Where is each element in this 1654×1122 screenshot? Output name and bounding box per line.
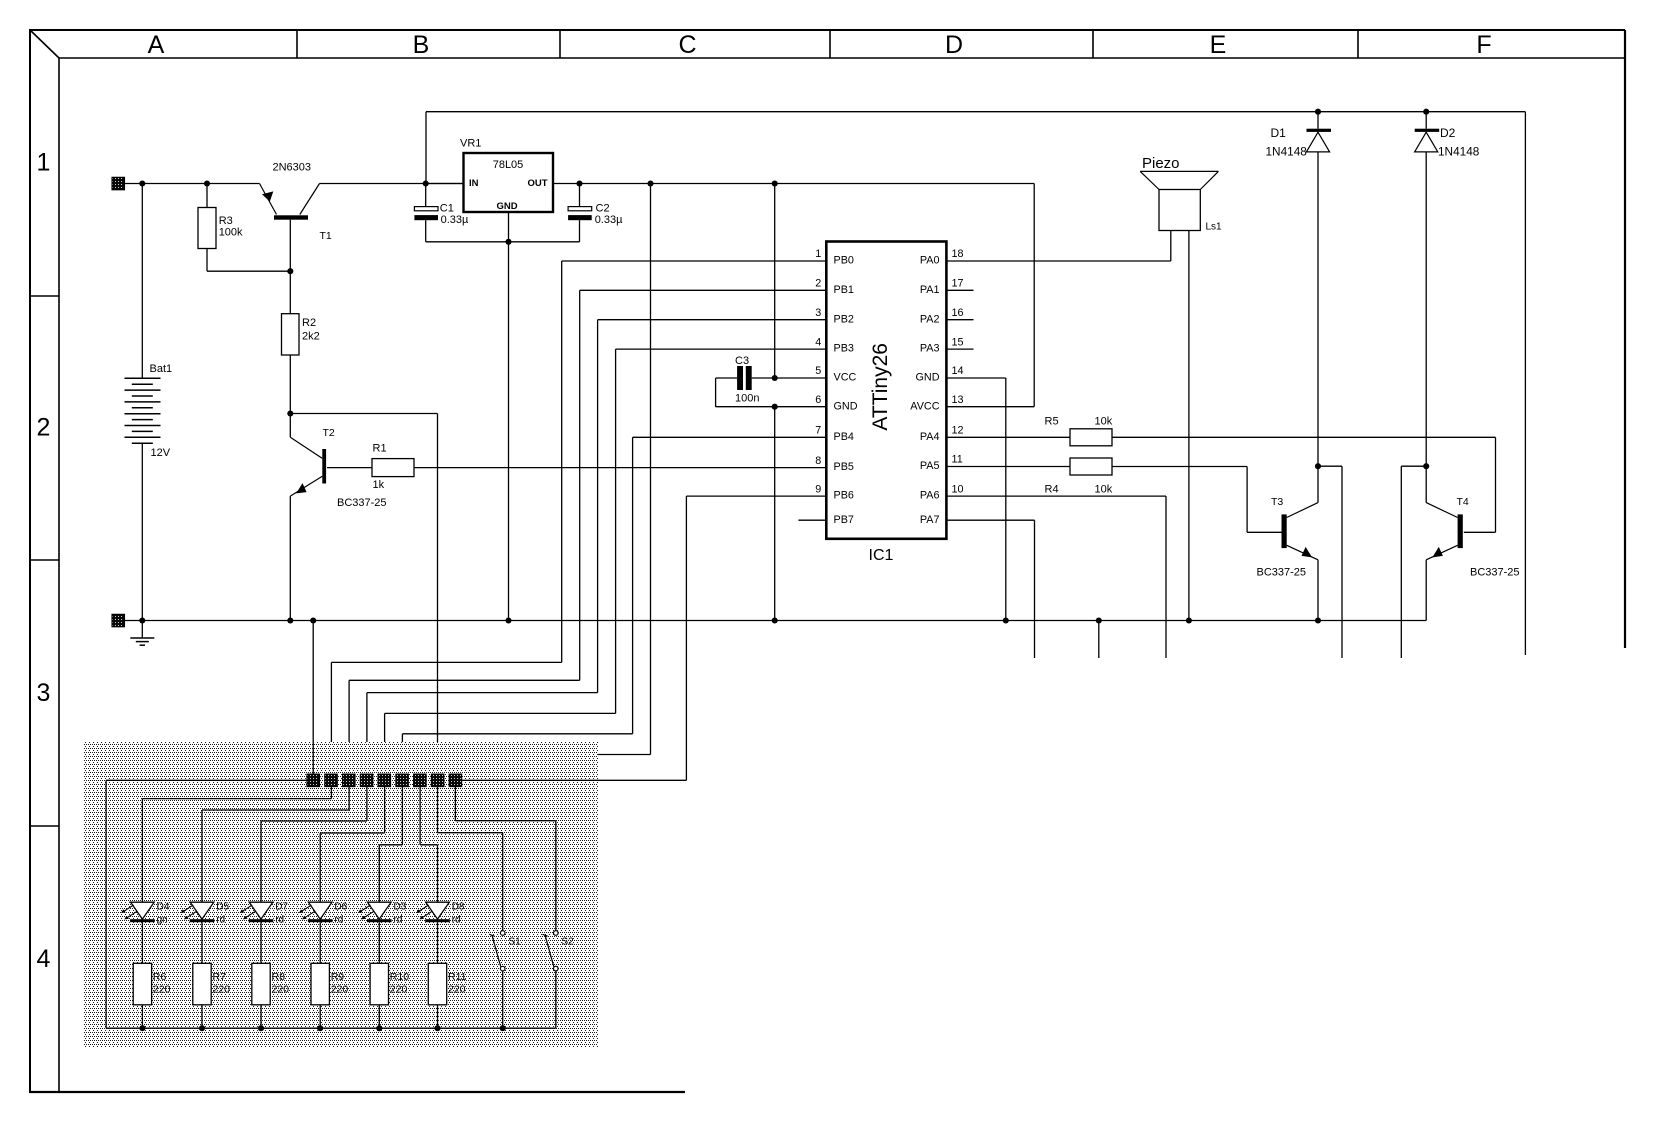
resistor R11 220	[428, 963, 466, 1028]
resistor R1 1k	[327, 443, 414, 492]
wire LED cathode rail	[106, 1025, 556, 1031]
svg-text:14: 14	[952, 365, 964, 377]
connector pad 5	[378, 774, 391, 787]
svg-text:12: 12	[952, 425, 964, 437]
IC1 pin labels	[815, 248, 963, 526]
wire ground stub	[1098, 621, 1100, 659]
wire T1 base down	[287, 220, 293, 314]
svg-text:0.33µ: 0.33µ	[595, 214, 623, 226]
svg-text:BC337-25: BC337-25	[337, 497, 387, 509]
wire pad3 to D5	[202, 787, 349, 903]
node D1 rail junction	[1315, 109, 1321, 115]
frame column labels	[148, 31, 1492, 59]
svg-text:Piezo: Piezo	[1142, 155, 1180, 172]
svg-text:2k2: 2k2	[302, 331, 320, 343]
svg-text:rd: rd	[394, 915, 403, 926]
svg-text:C: C	[678, 31, 696, 59]
resistor R10 220	[370, 963, 409, 1028]
svg-text:D2: D2	[1440, 126, 1456, 140]
wire R3 to T1 base	[207, 270, 290, 272]
svg-text:1k: 1k	[373, 479, 385, 491]
transistor T3 BC337-25	[1257, 466, 1319, 620]
connector pad 7	[414, 774, 427, 787]
svg-text:PA5: PA5	[920, 460, 940, 472]
resistor R5 10k	[946, 415, 1495, 532]
svg-text:12V: 12V	[151, 447, 171, 459]
wire R1 to PB5	[414, 467, 826, 469]
svg-text:GND: GND	[916, 372, 940, 384]
wire pad1 ground feed	[312, 621, 314, 775]
svg-text:13: 13	[952, 394, 964, 406]
LED D7 rd	[240, 902, 289, 964]
ground symbol	[130, 621, 154, 646]
svg-text:PB3: PB3	[834, 343, 854, 355]
diode D2 1N4148	[1415, 112, 1480, 467]
wire PB6 net	[686, 496, 826, 780]
svg-text:17: 17	[952, 278, 964, 290]
speaker Ls1 Piezo	[1140, 155, 1222, 233]
wire 5V rail	[553, 180, 1034, 186]
wire pad8 to S1	[438, 787, 503, 931]
svg-text:3: 3	[37, 679, 51, 707]
wire PB3 net	[385, 349, 827, 774]
transistor T2 BC337-25	[290, 414, 386, 621]
capacitor C3 100n	[716, 355, 775, 407]
svg-text:R1: R1	[373, 443, 387, 455]
resistor R3 100k	[198, 184, 243, 272]
svg-text:100k: 100k	[219, 227, 243, 239]
svg-text:R11: R11	[448, 971, 467, 983]
resistor R7 220	[193, 963, 230, 1028]
svg-text:BC337-25: BC337-25	[1257, 567, 1307, 579]
svg-text:IC1: IC1	[869, 547, 894, 564]
svg-text:10: 10	[952, 483, 964, 495]
svg-text:220: 220	[213, 984, 231, 996]
svg-text:2: 2	[815, 278, 821, 290]
node T2 collector junction	[287, 410, 293, 416]
wire PB4 net	[402, 437, 826, 774]
wire PA3 stub	[946, 348, 973, 350]
op-amp U IC1 ATTiny26 body	[826, 242, 946, 564]
wire PB7 stub	[798, 519, 826, 521]
wire pad9 to S2	[455, 787, 555, 931]
svg-text:VR1: VR1	[460, 138, 481, 150]
wire PA7 net	[946, 520, 1034, 658]
wire PB1 net	[349, 290, 826, 774]
wire ground rail	[125, 617, 1427, 623]
wire PA0 to speaker	[946, 231, 1170, 262]
wire VR1 IN	[426, 183, 464, 185]
svg-text:R3: R3	[219, 215, 233, 227]
wire AVCC branch	[946, 184, 1034, 407]
capacitor C1 0.33u	[414, 184, 469, 242]
resistor R4 10k	[946, 458, 1281, 532]
transistor T1 2N6303	[260, 162, 332, 243]
svg-text:1N4148: 1N4148	[1438, 144, 1480, 158]
resistor R9 220	[311, 963, 348, 1028]
svg-text:C1: C1	[440, 203, 454, 215]
svg-text:T3: T3	[1271, 496, 1283, 508]
wire T4 collector stub	[1401, 466, 1426, 658]
svg-text:GND: GND	[496, 201, 517, 212]
capacitor C2 0.33u	[568, 184, 623, 242]
connector pad 3	[343, 774, 356, 787]
svg-text:R6: R6	[153, 971, 167, 983]
svg-text:2N6303: 2N6303	[273, 162, 312, 174]
node T4 collector	[1423, 463, 1429, 469]
wire C1 C2 to VR1 GND	[426, 239, 580, 245]
svg-text:PB1: PB1	[834, 284, 854, 296]
svg-text:18: 18	[952, 248, 964, 260]
svg-text:D5: D5	[216, 902, 229, 913]
svg-text:7: 7	[815, 425, 821, 437]
connector pad 2	[325, 774, 338, 787]
connector pad 6	[396, 774, 409, 787]
wire PA1 stub	[946, 289, 973, 291]
svg-text:PA6: PA6	[920, 490, 940, 502]
svg-text:0.33µ: 0.33µ	[441, 214, 469, 226]
wire pad6 to D3	[379, 787, 402, 903]
svg-text:D3: D3	[394, 902, 407, 913]
wire pad row left	[106, 780, 307, 1028]
voltage regulator VR1 78L05	[460, 138, 553, 213]
svg-text:Ls1: Ls1	[1206, 222, 1223, 233]
svg-text:C2: C2	[596, 203, 610, 215]
wire IC GND pin6	[772, 404, 827, 621]
node D2 rail junction	[1423, 109, 1429, 115]
LED D3 rd	[358, 902, 407, 964]
svg-text:rd: rd	[334, 915, 343, 926]
svg-text:IN: IN	[469, 178, 479, 189]
svg-text:PB0: PB0	[834, 255, 854, 267]
svg-text:78L05: 78L05	[493, 159, 524, 171]
LED D5 rd	[181, 902, 230, 964]
svg-text:PB5: PB5	[834, 461, 854, 473]
svg-text:PA7: PA7	[920, 514, 940, 526]
switch S2	[543, 931, 575, 1028]
svg-text:PB7: PB7	[834, 514, 854, 526]
wire 12V rail T1 to VR1	[320, 180, 464, 186]
LED D4 gn	[121, 902, 170, 964]
svg-text:T1: T1	[320, 230, 332, 242]
svg-text:R10: R10	[390, 971, 409, 983]
svg-text:220: 220	[272, 984, 290, 996]
svg-text:1: 1	[815, 248, 821, 260]
svg-text:10k: 10k	[1095, 484, 1113, 496]
connector pad 9	[449, 774, 462, 787]
wire VR1 GND down	[508, 212, 510, 621]
svg-text:ATTiny26: ATTiny26	[869, 343, 892, 431]
wire PA2 stub	[946, 319, 973, 321]
ground pad terminal	[112, 614, 125, 627]
connector pad 4	[360, 774, 373, 787]
svg-text:100n: 100n	[735, 393, 759, 405]
resistor R8 220	[252, 963, 289, 1028]
svg-text:C3: C3	[735, 355, 749, 367]
svg-text:D: D	[945, 31, 963, 59]
svg-text:PA3: PA3	[920, 343, 940, 355]
resistor R6 220	[133, 963, 170, 1028]
svg-text:15: 15	[952, 336, 964, 348]
svg-text:S1: S1	[509, 937, 522, 948]
wire PB0 net	[331, 261, 826, 774]
switch S1	[489, 931, 521, 1028]
svg-text:220: 220	[390, 984, 408, 996]
connector pad 1	[307, 774, 320, 787]
svg-text:D4: D4	[157, 902, 170, 913]
svg-text:T4: T4	[1457, 496, 1469, 508]
resistor R2 2k2	[282, 314, 320, 414]
svg-text:BC337-25: BC337-25	[1470, 567, 1520, 579]
svg-text:D8: D8	[452, 902, 465, 913]
battery Bat1 12V	[125, 184, 173, 621]
svg-text:PA4: PA4	[920, 431, 940, 443]
supply pad terminal	[112, 177, 125, 190]
node T3 collector	[1315, 463, 1321, 469]
svg-text:8: 8	[815, 455, 821, 467]
wire PB2 net	[367, 320, 826, 775]
svg-text:R2: R2	[302, 317, 316, 329]
svg-text:R9: R9	[331, 971, 345, 983]
svg-text:S2: S2	[562, 937, 575, 948]
svg-text:5: 5	[815, 365, 821, 377]
svg-text:F: F	[1476, 31, 1491, 59]
svg-text:PB6: PB6	[834, 490, 854, 502]
svg-text:PA1: PA1	[920, 284, 940, 296]
wire pad2 to D4	[142, 787, 331, 903]
svg-text:9: 9	[815, 483, 821, 495]
svg-text:D1: D1	[1271, 126, 1287, 140]
svg-text:D6: D6	[334, 902, 347, 913]
display board shaded area	[83, 742, 598, 1047]
svg-text:Bat1: Bat1	[150, 363, 173, 375]
svg-text:1: 1	[37, 149, 51, 177]
wire T2 collector to pad row	[290, 414, 437, 775]
svg-text:VCC: VCC	[834, 372, 857, 384]
wire pad5 to D6	[320, 787, 384, 903]
LED D8 rd	[416, 902, 465, 964]
svg-text:1N4148: 1N4148	[1266, 144, 1308, 158]
svg-text:4: 4	[37, 945, 51, 973]
wire IC GND pin14	[946, 378, 1005, 621]
connector pad 8	[431, 774, 444, 787]
svg-text:16: 16	[952, 307, 964, 319]
LED D6 rd	[299, 902, 348, 964]
wire 12V rail left	[125, 180, 260, 186]
svg-text:rd: rd	[275, 915, 284, 926]
transistor T4 BC337-25	[1426, 466, 1519, 620]
svg-text:4: 4	[815, 336, 821, 348]
svg-text:T2: T2	[323, 427, 335, 439]
svg-text:10k: 10k	[1095, 415, 1113, 427]
svg-text:220: 220	[153, 984, 171, 996]
svg-text:220: 220	[448, 984, 466, 996]
wire pad4 to D7	[261, 787, 367, 903]
svg-text:R4: R4	[1045, 484, 1059, 496]
svg-text:PA0: PA0	[920, 255, 940, 267]
svg-text:rd: rd	[216, 915, 225, 926]
wire T3 collector stub	[1318, 466, 1342, 658]
svg-text:220: 220	[331, 984, 349, 996]
svg-text:11: 11	[952, 454, 963, 466]
diode D1 1N4148	[1266, 112, 1332, 467]
svg-text:GND: GND	[834, 400, 858, 412]
svg-text:OUT: OUT	[527, 178, 547, 189]
svg-text:PB4: PB4	[834, 431, 854, 443]
svg-text:R8: R8	[272, 971, 286, 983]
svg-text:PB2: PB2	[834, 313, 854, 325]
svg-text:3: 3	[815, 307, 821, 319]
wire VCC branch	[772, 184, 827, 382]
svg-text:E: E	[1210, 31, 1227, 59]
wire 12V top loop	[426, 112, 1525, 655]
svg-text:R5: R5	[1045, 415, 1059, 427]
svg-text:rd: rd	[452, 915, 461, 926]
wire pad7 to D8	[420, 787, 437, 903]
wire 5V to pad7	[420, 184, 650, 775]
wire speaker to ground	[1188, 231, 1190, 621]
svg-text:2: 2	[37, 414, 51, 442]
svg-text:6: 6	[815, 394, 821, 406]
wire PA6 net	[946, 496, 1166, 658]
svg-text:PA2: PA2	[920, 313, 940, 325]
svg-text:R7: R7	[213, 971, 227, 983]
svg-text:AVCC: AVCC	[910, 400, 939, 412]
svg-text:B: B	[413, 31, 430, 59]
wire pad row right to PB6	[461, 779, 686, 781]
svg-text:D7: D7	[275, 902, 288, 913]
svg-text:gn: gn	[157, 915, 168, 926]
svg-text:A: A	[148, 31, 165, 59]
frame row labels	[37, 149, 51, 974]
